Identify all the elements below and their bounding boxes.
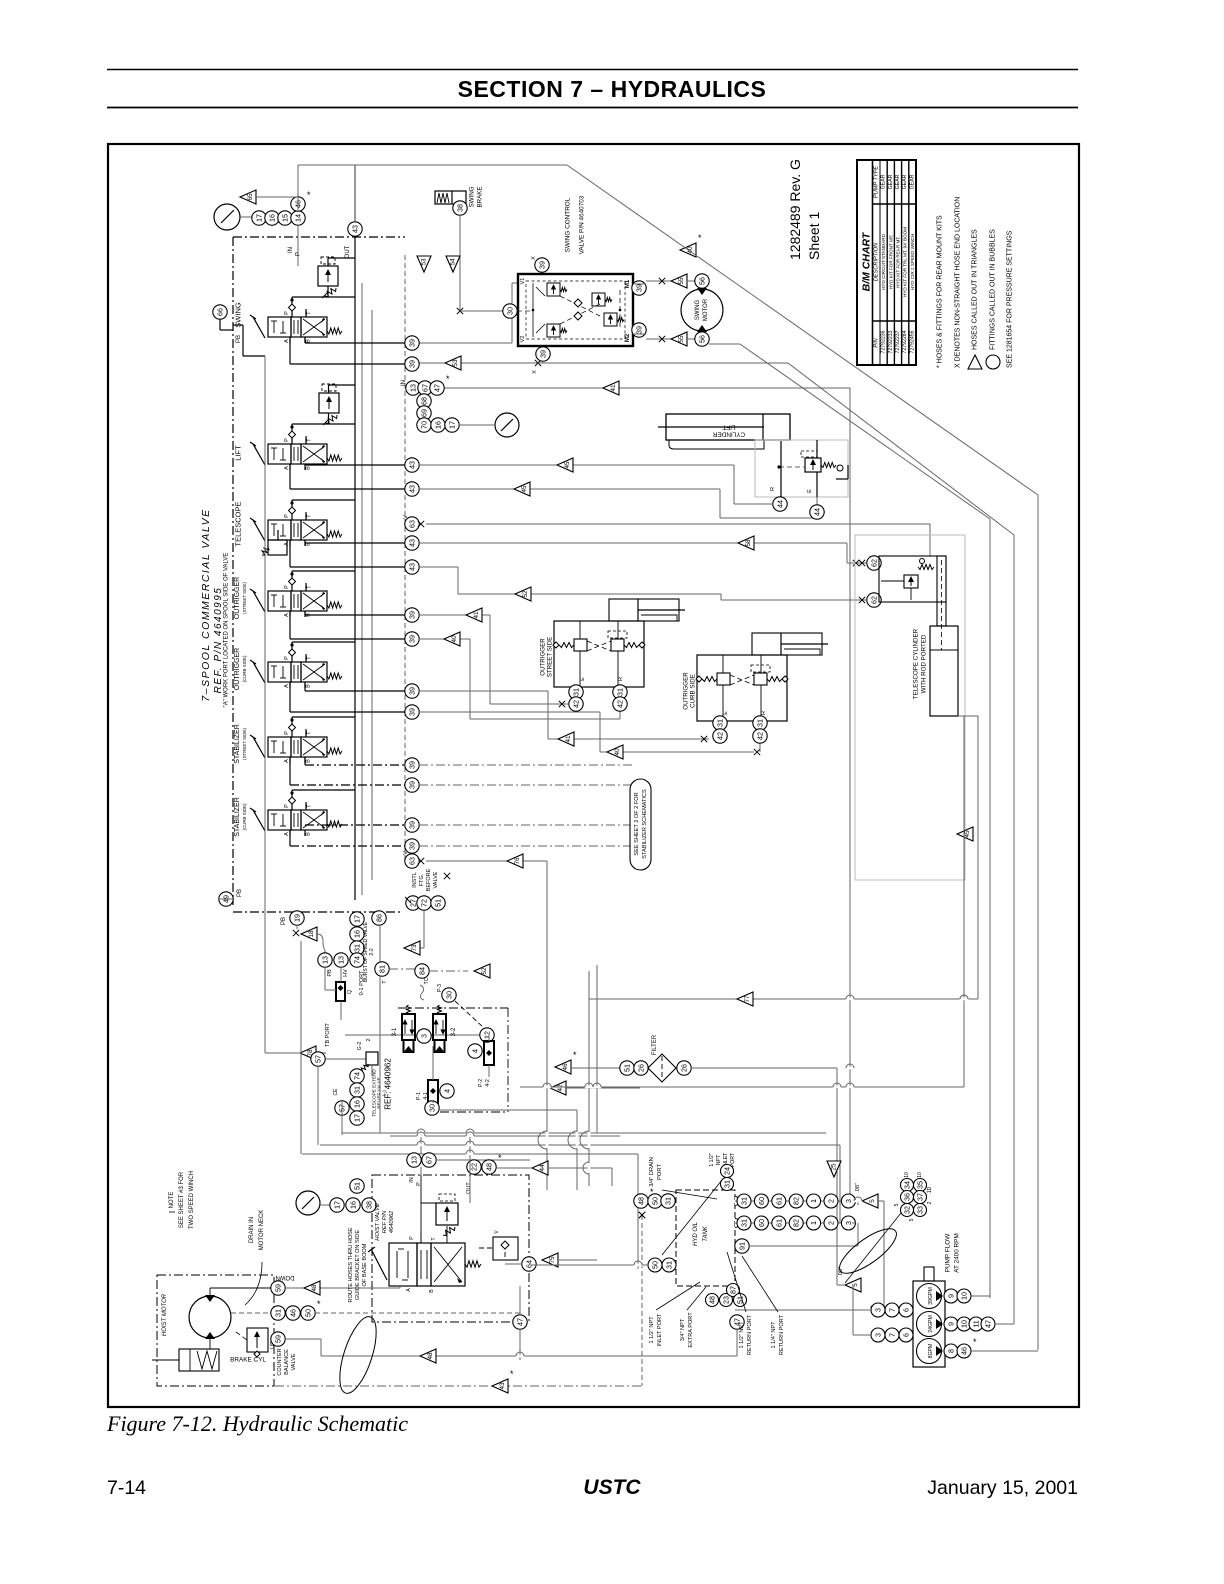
svg-text:SECTION 7 – HYDRAULICS: SECTION 7 – HYDRAULICS <box>458 76 767 102</box>
svg-text:41: 41 <box>473 611 480 619</box>
hose triangle 76 <box>507 854 523 868</box>
wire <box>519 1329 521 1356</box>
bubble 14 <box>291 211 305 225</box>
svg-text:A: A <box>284 684 290 688</box>
wire <box>290 566 405 568</box>
bubble 8 <box>944 1344 958 1358</box>
wire hop <box>846 998 854 1001</box>
wire <box>836 478 848 480</box>
svg-text:ROUTE HOSES THRU HOSE: ROUTE HOSES THRU HOSE <box>348 1227 354 1302</box>
wire <box>404 255 406 862</box>
bubble 61 <box>772 1216 786 1230</box>
wire <box>303 446 325 462</box>
svg-text:30: 30 <box>445 991 454 999</box>
spring <box>560 329 567 333</box>
wire <box>303 664 325 680</box>
svg-text:70: 70 <box>420 421 429 429</box>
bubble 86 <box>372 911 386 925</box>
wire <box>846 543 848 563</box>
svg-text:G-2: G-2 <box>357 1042 363 1051</box>
svg-text:68: 68 <box>420 397 429 405</box>
bubble 43 <box>405 458 419 472</box>
svg-text:TELESCOPE CYLINDER: TELESCOPE CYLINDER <box>913 628 920 699</box>
svg-text:B: B <box>306 684 312 688</box>
wire <box>576 1110 578 1190</box>
bubble 17 <box>330 1198 344 1212</box>
wire <box>285 1338 321 1340</box>
wire <box>303 319 325 335</box>
box <box>879 556 946 602</box>
junction X <box>859 597 865 603</box>
wire <box>517 310 530 312</box>
bubble 9 <box>944 1317 958 1331</box>
svg-text:31: 31 <box>274 1309 283 1317</box>
box <box>268 662 291 682</box>
wire <box>722 685 724 721</box>
junction X <box>639 1212 645 1218</box>
bubble 48 <box>482 1160 496 1174</box>
spring <box>767 677 782 682</box>
svg-text:60: 60 <box>757 1197 766 1205</box>
wire <box>910 588 912 600</box>
box <box>755 440 848 497</box>
wire hop <box>417 1144 425 1147</box>
wire <box>282 741 284 753</box>
wire <box>419 638 470 640</box>
svg-text:A: A <box>284 759 290 763</box>
svg-text:18: 18 <box>308 930 315 938</box>
wire <box>619 711 621 719</box>
wire <box>320 1144 840 1146</box>
svg-text:24GPM: 24GPM <box>928 1315 934 1333</box>
svg-text:69: 69 <box>420 409 429 417</box>
wire <box>420 1175 422 1203</box>
valve 4-1 <box>428 1080 438 1103</box>
svg-text:Sheet 1: Sheet 1 <box>806 212 822 260</box>
wire <box>297 225 299 266</box>
wire <box>303 739 325 755</box>
svg-text:45: 45 <box>564 461 571 469</box>
svg-text:SWING CONTROL: SWING CONTROL <box>565 197 572 252</box>
box <box>754 673 767 685</box>
svg-text:P-1: P-1 <box>416 1092 422 1100</box>
svg-text:VALVE P/N 4640703: VALVE P/N 4640703 <box>579 195 586 254</box>
wire <box>289 540 291 546</box>
hose triangle 58 <box>738 536 754 550</box>
svg-text:TANK: TANK <box>703 1225 709 1242</box>
wire <box>315 1312 520 1314</box>
bubble 42 <box>713 729 727 743</box>
svg-text:3: 3 <box>874 1308 883 1312</box>
wire <box>722 655 724 673</box>
junction dot <box>619 309 622 312</box>
wire <box>419 542 847 544</box>
svg-text:R: R <box>618 677 624 681</box>
box <box>666 414 790 440</box>
wire <box>327 258 329 266</box>
svg-text:*: * <box>307 190 311 200</box>
junction X <box>444 873 450 879</box>
wire <box>317 1066 319 1145</box>
svg-text:GEAR: GEAR <box>909 174 915 189</box>
wire <box>320 1339 322 1356</box>
wire <box>329 384 356 386</box>
wire <box>253 737 265 758</box>
wire <box>280 752 286 754</box>
hose triangle 46 <box>555 1060 571 1074</box>
svg-text:31: 31 <box>665 1261 674 1269</box>
wire <box>458 593 721 595</box>
wire <box>305 614 405 616</box>
wire <box>305 542 405 544</box>
spring <box>262 547 269 555</box>
svg-text:VALVE: VALVE <box>433 871 439 888</box>
svg-text:51: 51 <box>434 899 443 907</box>
svg-text:3-1: 3-1 <box>392 1027 398 1036</box>
svg-text:SWING: SWING <box>469 186 476 207</box>
svg-text:87: 87 <box>729 1286 738 1294</box>
wire <box>289 757 291 763</box>
svg-text:IN: IN <box>401 380 407 386</box>
wire <box>418 947 424 949</box>
wire <box>304 682 306 691</box>
junction X <box>639 1212 645 1218</box>
bubble 48 <box>706 1294 719 1307</box>
hoist valve enclosure REF P/N 4640962 <box>372 1175 529 1322</box>
wire <box>587 641 611 651</box>
svg-text:86: 86 <box>375 914 384 922</box>
wire <box>423 911 425 948</box>
svg-text:V: V <box>403 851 409 855</box>
svg-text:"A" WORK PORT LOCATED ON SPOOL: "A" WORK PORT LOCATED ON SPOOL SIDE OF V… <box>224 553 230 708</box>
box <box>268 540 287 555</box>
svg-text:4: 4 <box>443 1089 452 1093</box>
svg-text:3: 3 <box>874 1333 883 1337</box>
bubble 31 <box>737 1194 751 1208</box>
wire <box>291 731 293 737</box>
svg-text:10: 10 <box>904 1172 910 1178</box>
hose triangle 40 <box>680 243 696 257</box>
wire <box>290 488 405 490</box>
svg-text:TELESCOPE: TELESCOPE <box>234 501 243 546</box>
wire <box>169 1211 175 1213</box>
wire <box>479 1247 493 1249</box>
wire <box>209 1339 211 1349</box>
wire <box>929 524 931 556</box>
bubble 12 <box>480 1028 494 1042</box>
wire <box>242 325 244 356</box>
svg-text:9: 9 <box>947 1294 956 1298</box>
hose triangle 42 <box>550 1081 566 1095</box>
svg-text:47: 47 <box>516 1318 525 1326</box>
wire <box>419 845 632 847</box>
wire <box>600 751 754 753</box>
svg-text:75: 75 <box>549 1256 556 1264</box>
svg-text:39: 39 <box>408 635 417 643</box>
bubble 46 <box>291 197 305 211</box>
svg-text:58: 58 <box>745 539 752 547</box>
bubble 17 <box>350 912 364 926</box>
wire <box>293 665 295 679</box>
svg-text:B: B <box>306 339 312 343</box>
spring <box>327 748 342 754</box>
svg-text:42: 42 <box>756 732 765 740</box>
svg-text:48: 48 <box>311 1284 318 1292</box>
svg-text:48: 48 <box>637 1197 646 1205</box>
svg-text:FTG.: FTG. <box>419 873 425 886</box>
wire <box>419 488 720 490</box>
bubble 49 <box>219 892 233 906</box>
svg-text:PORT: PORT <box>657 1164 663 1180</box>
wire <box>328 385 330 393</box>
box <box>301 520 327 540</box>
svg-text:48: 48 <box>485 1163 494 1171</box>
wire <box>548 1167 612 1169</box>
wire <box>292 641 355 643</box>
svg-text:62: 62 <box>870 596 879 604</box>
wire <box>303 319 325 335</box>
svg-text:30: 30 <box>428 1104 437 1112</box>
wire <box>303 522 325 538</box>
check valve <box>289 724 296 731</box>
wire <box>253 591 265 612</box>
wire <box>293 523 295 537</box>
svg-text:43: 43 <box>408 461 417 469</box>
wire <box>379 925 381 962</box>
wire hop <box>588 1132 591 1148</box>
spring <box>702 677 717 682</box>
bubble 2 <box>824 1194 838 1208</box>
svg-text:E: E <box>723 711 729 715</box>
svg-text:OUTRIGGER: OUTRIGGER <box>540 638 547 676</box>
hose triangle 73 <box>404 941 420 955</box>
svg-text:FITTINGS CALLED OUT IN BUBBLES: FITTINGS CALLED OUT IN BUBBLES <box>990 229 997 350</box>
wire hop <box>960 998 968 1001</box>
wire <box>855 1200 858 1202</box>
svg-text:32: 32 <box>903 1206 912 1214</box>
flow divider Q <box>336 982 345 1001</box>
wire <box>292 499 355 501</box>
svg-text:45: 45 <box>521 485 528 493</box>
svg-text:3/4” NPT: 3/4” NPT <box>680 1318 686 1341</box>
spring <box>327 673 342 679</box>
wire <box>721 599 866 601</box>
bubble 6 <box>899 1328 913 1342</box>
box <box>805 458 821 472</box>
wire <box>420 1203 422 1243</box>
svg-text:52: 52 <box>481 967 488 975</box>
svg-text:51: 51 <box>623 1064 632 1072</box>
hose triangle 40 <box>444 632 460 646</box>
legend circle symbol <box>986 355 1000 369</box>
wire <box>340 967 342 982</box>
svg-text:38: 38 <box>365 1201 374 1209</box>
wire <box>361 283 363 895</box>
bubble 59 <box>271 1281 285 1295</box>
wire <box>280 825 286 827</box>
junction dot <box>290 501 293 504</box>
junction dot <box>290 718 293 721</box>
wire <box>530 1264 648 1266</box>
svg-text:(CURB SIDE): (CURB SIDE) <box>242 655 247 682</box>
svg-text:3: 3 <box>420 1034 429 1038</box>
box <box>404 1040 414 1052</box>
svg-text:BRAKE CYL: BRAKE CYL <box>230 1357 266 1364</box>
wire <box>633 283 646 285</box>
svg-text:43: 43 <box>408 539 417 547</box>
wire <box>265 1052 300 1054</box>
box <box>291 810 301 830</box>
svg-text:30: 30 <box>506 307 515 315</box>
box <box>752 633 822 655</box>
svg-text:13: 13 <box>337 956 346 964</box>
hose triangle 45 <box>957 827 973 841</box>
svg-text:31: 31 <box>616 688 625 696</box>
bubble 63 <box>405 854 419 868</box>
hose triangle 53 <box>417 256 431 272</box>
svg-text:HYD CIRCUIT-STANDARD: HYD CIRCUIT-STANDARD <box>881 233 886 289</box>
svg-text:63: 63 <box>408 857 417 865</box>
svg-text:39: 39 <box>635 326 644 334</box>
wire <box>558 1259 597 1261</box>
wire <box>501 419 513 431</box>
svg-text:66: 66 <box>216 308 225 316</box>
wire <box>280 677 286 679</box>
svg-text:24: 24 <box>723 1167 732 1175</box>
svg-text:P: P <box>284 585 290 589</box>
bubble 13 <box>406 381 420 395</box>
junction X <box>701 736 707 742</box>
bubble 42 <box>569 697 583 711</box>
wire <box>275 1385 642 1387</box>
bubble 72 <box>417 896 431 910</box>
wire <box>298 164 567 166</box>
wire <box>709 343 740 345</box>
svg-text:P: P <box>284 656 290 660</box>
wire <box>305 824 405 826</box>
bubble 57 <box>335 1101 349 1115</box>
wire <box>879 160 881 365</box>
bubble 17 <box>252 211 266 225</box>
wire <box>280 606 286 608</box>
junction dot <box>777 465 780 468</box>
box <box>301 317 327 337</box>
hose triangle 65 <box>240 190 256 204</box>
wire <box>436 1159 530 1161</box>
svg-text:P/N: P/N <box>874 337 880 347</box>
svg-text:HYD OIL: HYD OIL <box>693 1222 699 1246</box>
svg-text:HYD KIT FOR TRL MT. 94' BOOM: HYD KIT FOR TRL MT. 94' BOOM <box>903 227 908 297</box>
wire <box>304 464 306 465</box>
wire <box>152 1359 179 1361</box>
svg-text:*: * <box>498 1153 502 1163</box>
svg-text:42: 42 <box>716 732 725 740</box>
wire <box>291 438 293 444</box>
wire hop <box>516 1355 524 1358</box>
svg-text:74: 74 <box>353 956 362 964</box>
svg-text:15: 15 <box>281 214 290 222</box>
svg-text:3-2: 3-2 <box>451 1027 457 1036</box>
svg-text:1 1/2” NPT: 1 1/2” NPT <box>649 1316 655 1344</box>
junction X <box>754 749 760 755</box>
wire <box>297 447 299 461</box>
junction X <box>659 278 665 284</box>
svg-text:10: 10 <box>960 1320 969 1328</box>
hose triangle 41 <box>466 608 482 622</box>
svg-text:13: 13 <box>321 956 330 964</box>
svg-text:56: 56 <box>698 335 707 343</box>
wire <box>402 1279 408 1281</box>
wire <box>520 1086 964 1088</box>
svg-text:LIFT: LIFT <box>234 445 243 461</box>
wire <box>646 280 671 282</box>
svg-text:INLET PORT: INLET PORT <box>657 1313 663 1346</box>
svg-text:39: 39 <box>408 611 417 619</box>
svg-text:31: 31 <box>664 1197 673 1205</box>
wire <box>881 580 904 582</box>
wire <box>719 489 721 518</box>
box <box>574 639 587 651</box>
bubble 69 <box>417 406 431 420</box>
wire <box>852 1285 854 1335</box>
wire <box>857 1223 859 1246</box>
svg-text:39: 39 <box>408 360 417 368</box>
wire <box>735 1309 871 1311</box>
wire <box>305 764 405 766</box>
spring <box>407 1005 411 1014</box>
check valve <box>696 676 702 682</box>
wire <box>304 464 306 470</box>
box <box>268 444 291 464</box>
wire <box>291 804 293 810</box>
box <box>291 520 301 540</box>
hose triangle 41 <box>558 732 574 746</box>
wire <box>322 292 328 298</box>
wire <box>883 1201 885 1306</box>
wire <box>304 337 306 343</box>
svg-text:1D: 1D <box>927 1186 933 1193</box>
wire <box>589 998 978 1000</box>
wire <box>290 363 405 365</box>
bubble 11 <box>969 1317 983 1331</box>
svg-text:36: 36 <box>903 1193 912 1201</box>
svg-text:2: 2 <box>927 1201 933 1204</box>
svg-text:23: 23 <box>722 1296 731 1304</box>
wire <box>236 1332 247 1340</box>
bubble 31 <box>569 685 583 699</box>
wire <box>273 448 275 460</box>
wire <box>596 965 598 1133</box>
box <box>924 1267 934 1281</box>
wire <box>107 69 1078 71</box>
wire hop <box>854 1200 862 1203</box>
svg-text:57: 57 <box>314 1055 323 1063</box>
hose triangle 48 <box>304 1281 320 1295</box>
bubble 30 <box>425 1101 439 1115</box>
svg-text:46: 46 <box>960 1347 969 1355</box>
wire <box>720 594 722 600</box>
wire <box>971 1295 990 1297</box>
wire <box>780 633 782 655</box>
svg-text:72792237: 72792237 <box>895 330 901 353</box>
bubble 35 <box>914 1179 927 1192</box>
svg-text:1: 1 <box>809 1221 818 1225</box>
bubble 30 <box>503 304 517 318</box>
svg-text:OUT: OUT <box>345 245 351 258</box>
svg-text:16: 16 <box>434 421 443 429</box>
wire <box>727 1252 746 1312</box>
bubble 42 <box>613 697 627 711</box>
